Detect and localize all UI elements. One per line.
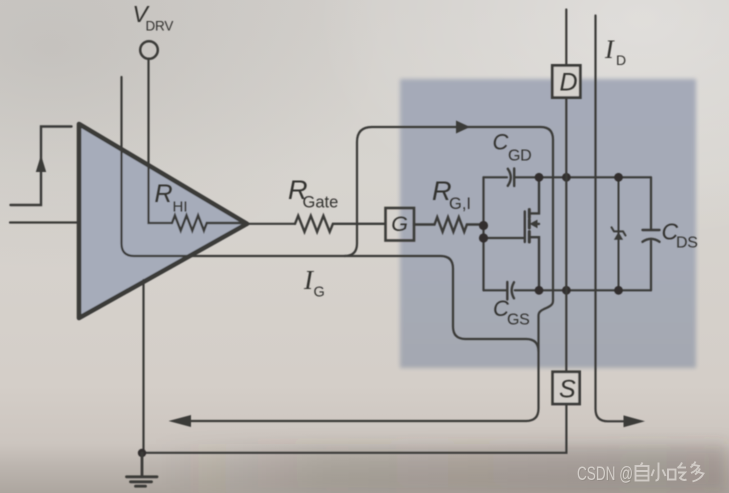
label VDRV xyxy=(133,1,174,34)
svg-text:GD: GD xyxy=(508,148,531,165)
label C_GD xyxy=(493,130,532,165)
svg-text:CSDN @: CSDN @ xyxy=(577,463,633,485)
resistor R_G,I xyxy=(414,217,483,232)
wire driver output to G xyxy=(247,223,295,225)
svg-text:G,I: G,I xyxy=(449,195,471,213)
svg-text:S: S xyxy=(559,376,576,404)
svg-text:D: D xyxy=(560,69,578,97)
capacitor C_DS plates xyxy=(643,230,660,242)
svg-text:C: C xyxy=(493,130,509,155)
label I_G xyxy=(303,265,325,301)
source wire S to ground rail xyxy=(142,404,566,453)
svg-text:Gate: Gate xyxy=(303,194,339,212)
body diode (zener style) xyxy=(612,177,626,290)
C_DS branch wires xyxy=(650,177,652,290)
glyph duo xyxy=(691,462,704,482)
driver ground wire xyxy=(142,280,144,453)
VDRV wire into driver xyxy=(149,59,173,224)
label C_GS xyxy=(493,296,530,329)
ground junction dot xyxy=(138,449,146,457)
svg-text:D: D xyxy=(616,52,626,68)
gate node junction dots xyxy=(479,221,488,243)
svg-text:DS: DS xyxy=(676,235,698,252)
S terminal box xyxy=(553,372,580,404)
label R_Gate xyxy=(288,175,338,212)
gate node vertical wire xyxy=(482,177,484,290)
svg-text:G: G xyxy=(314,285,325,301)
svg-text:GS: GS xyxy=(507,312,530,329)
watermark CSDN @zixiaochiduo xyxy=(577,462,704,487)
top drain rail with C_GD gap xyxy=(484,176,652,178)
svg-text:I: I xyxy=(604,35,615,64)
MOSFET Q1 symbol xyxy=(525,177,539,290)
ground symbol xyxy=(127,453,158,486)
label R_G,I xyxy=(432,176,471,213)
current path IG upper (arrow branch) xyxy=(169,121,554,428)
current path IG lower return wire xyxy=(122,77,539,352)
node G box xyxy=(386,208,415,241)
svg-text:G: G xyxy=(391,212,408,236)
glyph chi xyxy=(668,463,687,481)
capacitor C_GD plates xyxy=(508,169,514,187)
label C_DS xyxy=(662,219,698,252)
VDRV terminal circle xyxy=(140,41,158,59)
input wire xyxy=(10,221,79,223)
label I_D xyxy=(604,35,626,68)
glyph zi xyxy=(636,463,649,481)
drain external line xyxy=(565,10,567,372)
svg-text:R: R xyxy=(155,180,173,208)
resistor R_Gate xyxy=(295,216,385,232)
svg-text:HI: HI xyxy=(173,199,188,216)
I_D external line with right arrow xyxy=(596,16,646,428)
capacitor C_GS plates xyxy=(507,282,514,300)
bottom shadow band xyxy=(150,444,729,493)
label R_HI xyxy=(155,180,188,216)
gate lead to MOSFET xyxy=(484,237,525,239)
input step waveform xyxy=(11,127,72,206)
D terminal box xyxy=(552,65,580,97)
shaded MOSFET model region xyxy=(400,79,696,368)
bottom source rail with C_GS gap xyxy=(484,289,652,291)
glyph xiao xyxy=(652,463,666,481)
junction dots on rails xyxy=(535,173,623,295)
driver triangle U1 xyxy=(79,124,247,318)
svg-text:DRV: DRV xyxy=(146,19,174,34)
resistor R_HI xyxy=(172,215,245,230)
